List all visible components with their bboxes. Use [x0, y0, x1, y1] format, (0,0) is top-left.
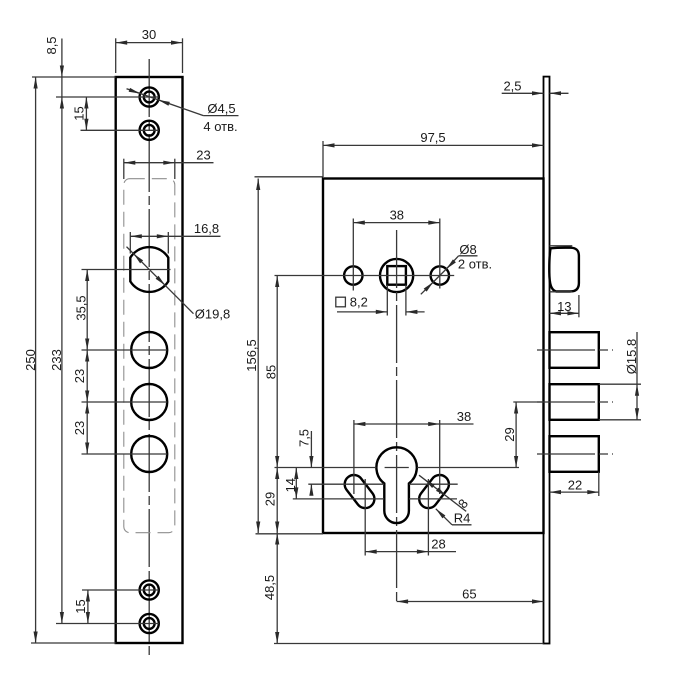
svg-text:Ø15.8: Ø15.8 — [624, 339, 639, 374]
svg-text:Ø8: Ø8 — [459, 242, 476, 257]
svg-text:65: 65 — [462, 586, 476, 601]
svg-text:30: 30 — [142, 27, 156, 42]
svg-text:29: 29 — [263, 492, 278, 506]
svg-text:38: 38 — [390, 208, 404, 223]
svg-text:15: 15 — [72, 106, 87, 120]
svg-text:233: 233 — [49, 349, 64, 371]
svg-text:8,5: 8,5 — [44, 36, 59, 54]
svg-text:48,5: 48,5 — [262, 575, 277, 600]
svg-text:2,5: 2,5 — [503, 79, 521, 94]
svg-text:R4: R4 — [454, 511, 471, 526]
svg-text:97,5: 97,5 — [420, 130, 445, 145]
svg-text:14: 14 — [283, 478, 298, 492]
svg-text:7,5: 7,5 — [297, 429, 312, 447]
svg-text:13: 13 — [557, 299, 571, 314]
svg-text:29: 29 — [502, 427, 517, 441]
svg-text:28: 28 — [431, 537, 445, 552]
svg-text:2 отв.: 2 отв. — [458, 256, 492, 271]
svg-text:23: 23 — [72, 369, 87, 383]
svg-text:15: 15 — [73, 599, 88, 613]
svg-text:23: 23 — [196, 148, 210, 163]
svg-text:23: 23 — [72, 421, 87, 435]
svg-text:16,8: 16,8 — [194, 221, 219, 236]
svg-text:250: 250 — [23, 349, 38, 371]
svg-text:38: 38 — [457, 409, 471, 424]
svg-text:35,5: 35,5 — [73, 295, 88, 320]
svg-text:Ø19,8: Ø19,8 — [195, 306, 230, 321]
svg-text:22: 22 — [568, 477, 582, 492]
svg-text:8,2: 8,2 — [350, 295, 368, 310]
svg-text:4 отв.: 4 отв. — [203, 119, 237, 134]
svg-text:156,5: 156,5 — [244, 339, 259, 372]
svg-text:85: 85 — [264, 365, 279, 379]
svg-text:Ø4,5: Ø4,5 — [207, 101, 235, 116]
